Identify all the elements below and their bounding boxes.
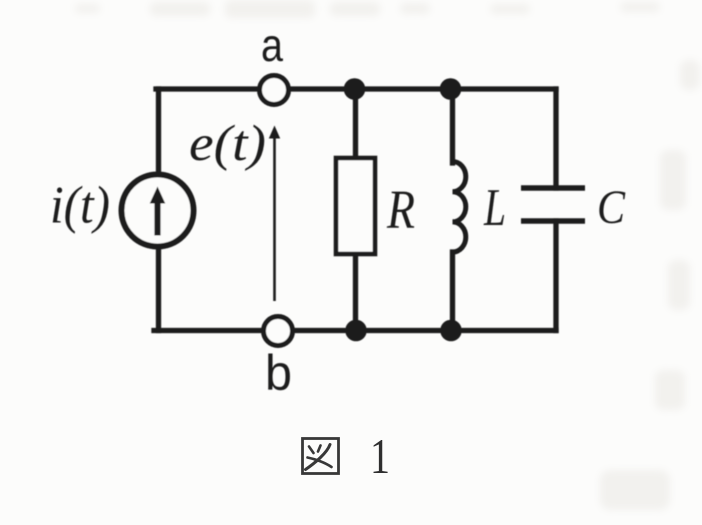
svg-text:L: L [483, 179, 506, 237]
current source I i(t) [122, 175, 194, 247]
inductor L coil [453, 162, 466, 253]
svg-text:e(t): e(t) [189, 116, 266, 172]
svg-text:a: a [261, 19, 283, 71]
svg-text:R: R [386, 180, 415, 241]
wire inductor branch top [450, 89, 455, 163]
svg-text:1: 1 [370, 428, 390, 484]
terminal b [264, 317, 293, 346]
voltage arrow e(t) [269, 126, 280, 302]
wire bottom [154, 328, 556, 333]
caption 図 1 [303, 439, 339, 474]
wire inductor branch bottom [450, 252, 455, 331]
svg-text:C: C [597, 181, 626, 234]
junction dot bottom-right [440, 320, 462, 342]
wire top [156, 86, 556, 91]
wire right bottom segment [553, 221, 558, 331]
junction dot bottom-left [345, 320, 367, 342]
wire left [156, 89, 161, 331]
wire right top segment [553, 89, 558, 188]
junction dot top-right [440, 78, 462, 100]
resistor R [336, 158, 375, 254]
terminal a [260, 76, 289, 105]
junction dot top-left [344, 78, 366, 100]
wire resistor branch [353, 89, 358, 331]
svg-text:i(t): i(t) [50, 177, 110, 235]
svg-text:b: b [265, 345, 292, 401]
capacitor C plates [521, 188, 585, 221]
